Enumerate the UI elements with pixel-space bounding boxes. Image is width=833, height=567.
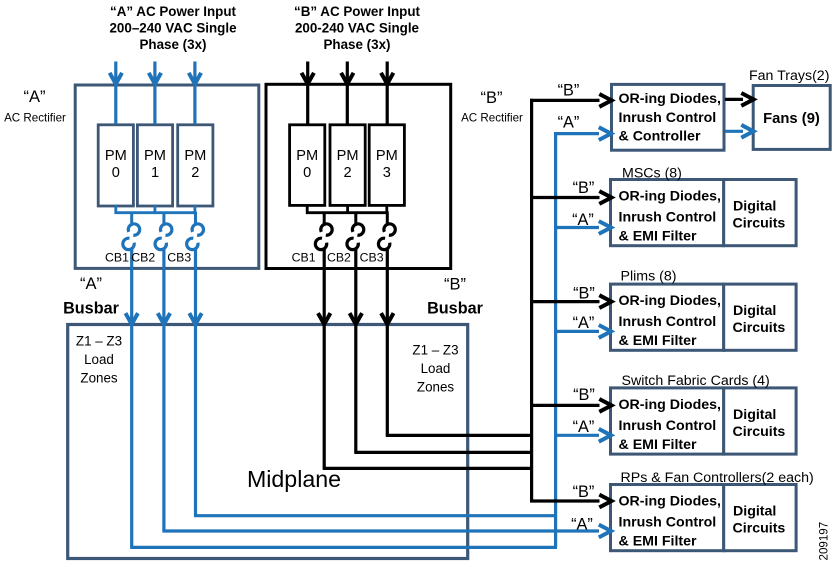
svg-text:Phase (3x): Phase (3x) <box>140 37 207 52</box>
svg-text:“B”: “B” <box>444 276 466 294</box>
svg-text:Inrush Control: Inrush Control <box>619 515 717 531</box>
svg-text:Digital: Digital <box>733 407 776 423</box>
svg-text:“B”: “B” <box>481 89 503 107</box>
svg-text:CB1: CB1 <box>105 251 129 265</box>
svg-text:“B”: “B” <box>573 285 595 303</box>
svg-text:OR-ing Diodes,: OR-ing Diodes, <box>619 494 721 510</box>
svg-text:& EMI Filter: & EMI Filter <box>619 534 698 550</box>
svg-text:Inrush Control: Inrush Control <box>619 110 717 126</box>
svg-text:PM: PM <box>376 148 398 164</box>
svg-text:Midplane: Midplane <box>247 466 341 492</box>
svg-text:Inrush Control: Inrush Control <box>619 314 717 330</box>
svg-text:“A”: “A” <box>573 418 595 436</box>
svg-text:OR-ing Diodes,: OR-ing Diodes, <box>619 91 721 107</box>
svg-text:Busbar: Busbar <box>63 300 119 318</box>
svg-text:OR-ing Diodes,: OR-ing Diodes, <box>619 397 721 413</box>
svg-text:Load: Load <box>421 361 451 376</box>
svg-text:Zones: Zones <box>417 380 455 395</box>
svg-text:Zones: Zones <box>80 371 118 386</box>
svg-text:CB3: CB3 <box>360 251 384 265</box>
svg-text:CB3: CB3 <box>167 251 191 265</box>
svg-text:“A”: “A” <box>573 314 595 332</box>
svg-text:2: 2 <box>344 165 352 181</box>
svg-text:Phase (3x): Phase (3x) <box>324 37 391 52</box>
svg-text:CB1: CB1 <box>292 251 316 265</box>
svg-text:& EMI Filter: & EMI Filter <box>619 229 698 245</box>
svg-text:Digital: Digital <box>733 199 776 215</box>
svg-text:OR-ing Diodes,: OR-ing Diodes, <box>619 293 721 309</box>
svg-text:& Controller: & Controller <box>619 129 701 145</box>
svg-text:AC Rectifier: AC Rectifier <box>4 112 66 125</box>
svg-text:Circuits: Circuits <box>733 521 786 537</box>
svg-text:“A”: “A” <box>558 114 580 132</box>
svg-text:CB2: CB2 <box>131 251 155 265</box>
svg-text:“B”: “B” <box>573 179 595 197</box>
svg-text:“A”: “A” <box>571 516 593 534</box>
svg-text:Load: Load <box>84 352 114 367</box>
svg-text:PM: PM <box>144 148 166 164</box>
svg-text:PM: PM <box>105 148 127 164</box>
svg-text:MSCs (8): MSCs (8) <box>622 166 682 182</box>
svg-text:“A”: “A” <box>24 88 46 106</box>
svg-text:& EMI Filter: & EMI Filter <box>619 333 698 349</box>
svg-text:PM: PM <box>337 148 359 164</box>
svg-text:200–240 VAC Single: 200–240 VAC Single <box>109 21 236 36</box>
svg-text:“B”: “B” <box>573 386 595 404</box>
svg-text:“A” AC Power Input: “A” AC Power Input <box>110 4 237 19</box>
svg-text:3: 3 <box>383 165 391 181</box>
svg-text:“A”: “A” <box>572 211 594 229</box>
svg-text:PM: PM <box>184 148 206 164</box>
svg-text:“B”: “B” <box>573 483 595 501</box>
svg-text:“B” AC Power Input: “B” AC Power Input <box>294 4 421 19</box>
svg-text:Fan Trays(2): Fan Trays(2) <box>749 68 829 84</box>
svg-text:OR-ing Diodes,: OR-ing Diodes, <box>619 189 721 205</box>
svg-text:Plims (8): Plims (8) <box>621 269 677 285</box>
svg-text:“A”: “A” <box>80 275 102 293</box>
svg-text:2: 2 <box>191 165 199 181</box>
svg-text:Busbar: Busbar <box>427 300 483 318</box>
svg-text:CB2: CB2 <box>327 251 351 265</box>
svg-text:Inrush Control: Inrush Control <box>619 210 717 226</box>
svg-text:Circuits: Circuits <box>733 320 786 336</box>
svg-text:Z1 – Z3: Z1 – Z3 <box>412 343 458 358</box>
svg-text:Digital: Digital <box>733 303 776 319</box>
svg-text:RPs & Fan Controllers(2 each): RPs & Fan Controllers(2 each) <box>621 470 814 486</box>
svg-text:1: 1 <box>151 165 159 181</box>
svg-text:“B”: “B” <box>558 82 580 100</box>
svg-text:0: 0 <box>303 165 311 181</box>
svg-text:Circuits: Circuits <box>733 424 786 440</box>
svg-text:PM: PM <box>296 148 318 164</box>
svg-text:AC Rectifier: AC Rectifier <box>461 112 523 125</box>
svg-text:Fans (9): Fans (9) <box>763 111 820 127</box>
svg-text:Circuits: Circuits <box>733 216 786 232</box>
svg-text:& EMI Filter: & EMI Filter <box>619 437 698 453</box>
svg-text:0: 0 <box>112 165 120 181</box>
svg-text:209197: 209197 <box>818 522 831 561</box>
svg-text:Inrush Control: Inrush Control <box>619 418 717 434</box>
svg-text:Z1 – Z3: Z1 – Z3 <box>76 334 122 349</box>
svg-text:200-240 VAC Single: 200-240 VAC Single <box>295 21 419 36</box>
svg-text:Switch Fabric Cards (4): Switch Fabric Cards (4) <box>622 373 770 389</box>
svg-text:Digital: Digital <box>733 504 776 520</box>
